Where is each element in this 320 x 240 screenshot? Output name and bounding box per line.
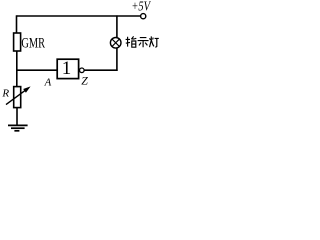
svg-text:+5V: +5V [131,0,151,14]
svg-text:A: A [44,77,52,89]
svg-text:GMR: GMR [21,35,45,51]
svg-text:1: 1 [62,58,72,79]
svg-text:R: R [1,87,9,99]
svg-text:Z: Z [81,74,88,88]
